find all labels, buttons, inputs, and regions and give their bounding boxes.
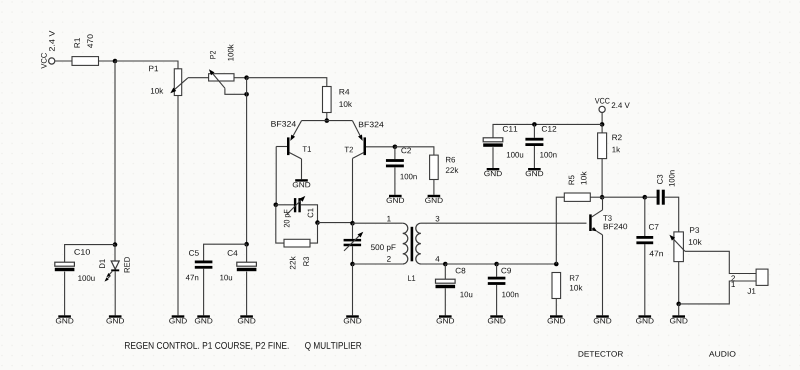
wire pin 2	[353, 263, 403, 265]
wire R7 node up to R5	[556, 197, 564, 264]
junction C4/C5 node	[244, 242, 249, 247]
wire R3 to node C	[276, 205, 284, 243]
diode D1 LED RED	[99, 257, 129, 282]
wire pin 4	[421, 263, 445, 265]
junction node B	[244, 75, 249, 80]
pin label 4	[435, 256, 439, 262]
wire T3 collector	[602, 197, 604, 210]
junction detector node	[600, 195, 605, 200]
wire T1 emitter to node	[302, 120, 327, 122]
transistor T2 BF324	[345, 121, 395, 159]
wire node to C10	[65, 245, 115, 263]
capacitor C8 10u	[436, 279, 456, 288]
capacitor C2 100n	[386, 159, 404, 167]
wire node D to tank top	[318, 222, 353, 224]
capacitor C5 47n	[195, 261, 213, 269]
wire node D down to R3	[310, 223, 318, 244]
wire 500pF to tank bottom	[352, 246, 354, 264]
wire node B to node B2	[246, 78, 248, 95]
wire return to J1 pin 1	[679, 281, 756, 304]
wire node B to R4 top	[247, 78, 327, 87]
wire to C9	[496, 264, 498, 277]
resistor R2 1k	[598, 133, 607, 159]
pin label 3	[436, 216, 440, 222]
junction T2 base node	[393, 145, 398, 150]
ground P3/J1	[670, 315, 688, 323]
wire to C2	[394, 147, 396, 159]
wire R4 bottom	[326, 113, 328, 121]
ground T1 collector	[293, 179, 311, 187]
wire T1 base down to tank node C	[275, 147, 277, 205]
wire R1 to node A	[99, 60, 116, 62]
wire to C7	[644, 197, 646, 236]
ground C8	[437, 315, 455, 323]
wire node B2 down to C4/C5 node	[246, 94, 248, 244]
wire C7 node to C3	[645, 196, 657, 198]
pin label 1	[387, 216, 390, 222]
ground C10	[56, 315, 74, 323]
wire R6 to ground	[433, 180, 435, 195]
inductor L1 transformer	[403, 223, 421, 281]
wire C11 to ground	[492, 147, 494, 168]
resistor R3 22k	[284, 239, 310, 269]
wire node to C5	[204, 244, 247, 260]
ground T3	[594, 315, 612, 323]
wire to C8	[444, 264, 446, 279]
wire P3 bottom	[678, 262, 680, 304]
pin label 2	[387, 256, 391, 262]
wire T2 emitter to node	[327, 120, 353, 122]
caption regen control	[125, 342, 289, 350]
pin label 2 J1	[731, 275, 735, 281]
ground D1	[106, 315, 124, 323]
junction C9 node	[494, 262, 499, 267]
caption q multiplier	[305, 342, 361, 351]
wire to C12	[533, 124, 535, 137]
capacitor 500 pF variable	[344, 232, 396, 252]
capacitor C7 47n	[636, 236, 653, 244]
wire D1 to ground	[114, 271, 116, 315]
wire tank top to 500pF	[352, 223, 354, 239]
wire C8 node to C9 node	[445, 263, 496, 265]
wire C7 to ground	[644, 244, 646, 315]
potentiometer P3 10k	[669, 227, 701, 261]
power VCC terminal right	[595, 98, 630, 113]
wire C8 to ground	[444, 288, 446, 315]
wire tank bottom to ground	[352, 264, 354, 315]
wire P3 wiper to J1 pin 2	[685, 251, 756, 273]
junction node D	[315, 220, 320, 225]
wire VCC rail to C11	[493, 124, 602, 137]
wire pin 1	[353, 222, 403, 224]
pin label 1 J1	[732, 281, 735, 287]
junction emitters node	[325, 118, 330, 123]
wire pin 3 to T3 base	[421, 222, 587, 224]
capacitor C12 100n	[525, 138, 543, 146]
wire R2 to collector node	[601, 159, 603, 198]
potentiometer P1 10k	[149, 66, 188, 96]
ground C4	[238, 315, 256, 323]
capacitor C10 100u	[55, 262, 75, 271]
wire C2 to ground	[394, 167, 396, 195]
wire R7 to ground	[555, 299, 557, 316]
resistor R1 470	[72, 34, 99, 65]
wire node C to C1	[276, 204, 294, 206]
ground C5	[195, 315, 213, 323]
ground tank	[344, 315, 362, 323]
ground R6	[425, 195, 443, 203]
wire J1 return to ground	[678, 304, 680, 315]
wire VCC stub	[601, 113, 603, 125]
junction tank bottom node	[350, 262, 355, 267]
ground C11	[484, 168, 502, 176]
resistor R5 10k	[564, 193, 590, 201]
junction C12 node	[532, 122, 537, 127]
power VCC terminal left	[41, 31, 55, 69]
capacitor C1 20 pF trimmer	[284, 196, 313, 227]
junction C7 node	[643, 195, 648, 200]
junction tank top node	[350, 221, 355, 226]
junction C10/D1 node	[113, 242, 118, 247]
capacitor C3 100n	[657, 170, 675, 204]
wire C9 node to R7 node	[497, 263, 557, 265]
wire base node to R6	[395, 147, 434, 155]
wire P2 right to node B	[234, 77, 247, 79]
wire P2 wiper down	[225, 88, 247, 94]
resistor R6 22k	[430, 155, 459, 179]
wire C9 to ground	[496, 285, 498, 315]
wire T3 emitter to ground	[602, 235, 604, 315]
wire R5 to detector node	[590, 196, 602, 198]
junction J1 return node	[676, 302, 681, 307]
wire VCC to R1	[55, 60, 72, 62]
wire C1 to node D	[301, 205, 318, 223]
wire node A to P1 top	[115, 61, 178, 69]
wire node to C4	[246, 244, 248, 262]
caption detector	[579, 351, 623, 357]
caption audio	[709, 351, 736, 357]
junction node C	[274, 203, 279, 208]
wire C4 to ground	[246, 272, 248, 316]
wire T2 collector to tank	[352, 158, 354, 223]
ground C12	[526, 168, 544, 176]
wire T1 collector to ground	[301, 159, 303, 179]
capacitor C9 100n	[488, 277, 506, 285]
junction R7 node	[554, 262, 559, 267]
capacitor C11 100u	[483, 138, 503, 147]
connector J1	[747, 269, 768, 294]
transistor T3 BF240	[589, 210, 627, 235]
ground P1	[169, 315, 187, 323]
wire C10 to ground	[64, 272, 66, 316]
junction node A	[113, 59, 118, 64]
ground C2	[387, 195, 405, 203]
wire C3 to P3	[665, 197, 679, 232]
wire detector node to C7 node	[602, 196, 645, 198]
ground C9	[488, 315, 506, 323]
ground R7	[548, 315, 566, 323]
wire P1 bottom to ground	[177, 96, 179, 316]
potentiometer P2 100k	[209, 44, 234, 88]
wire C5 to ground	[203, 269, 205, 316]
wire P1 wiper to P2	[188, 77, 209, 79]
wire rail to R2	[601, 124, 603, 132]
transistor T1 BF324	[271, 121, 311, 159]
junction VCC rail node	[600, 122, 605, 127]
wire C12 to ground	[533, 146, 535, 168]
resistor R7 10k	[552, 273, 561, 299]
wire node A down to C10/D1 node	[114, 61, 116, 245]
junction C8 node	[443, 262, 448, 267]
wire node to D1	[114, 245, 116, 261]
resistor R4 10k	[323, 87, 353, 113]
ground C7	[636, 315, 654, 323]
junction node B2	[244, 92, 249, 97]
capacitor C4 10u	[237, 262, 257, 271]
